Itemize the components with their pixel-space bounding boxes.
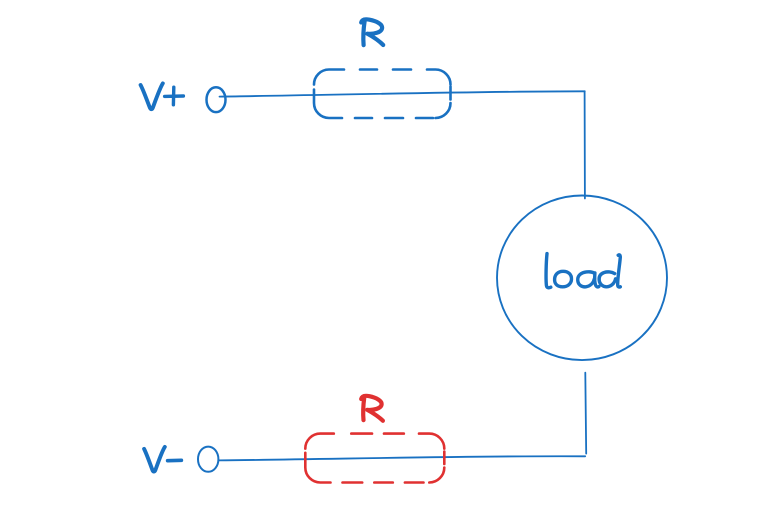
resistor R1 (top, dashed body) — [314, 70, 451, 119]
label V- — [144, 447, 181, 472]
terminal node V+ — [207, 87, 226, 112]
wire bottom-right vertical — [584, 373, 587, 454]
label R (top) — [361, 19, 383, 45]
terminal node V- — [198, 447, 218, 472]
resistor R2 (bottom, dashed body) — [305, 434, 444, 483]
label load — [546, 254, 620, 288]
label R (bottom) — [361, 396, 383, 421]
label V+ — [141, 83, 184, 109]
wire top-right vertical — [584, 91, 586, 198]
wire top horizontal — [220, 91, 585, 96]
load U1 circle — [497, 195, 667, 360]
wire bottom horizontal — [219, 456, 586, 460]
